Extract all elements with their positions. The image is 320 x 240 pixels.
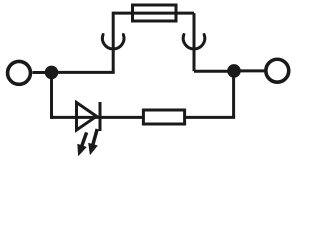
wire right junction to right terminal <box>234 69 265 72</box>
junction dot right <box>227 64 241 78</box>
wire left terminal to left junction <box>32 71 48 74</box>
LED cathode bar <box>99 102 102 131</box>
wire right riser <box>193 13 196 71</box>
fuse holder contact left <box>102 35 124 49</box>
terminal circle left <box>8 61 31 84</box>
wire bottom left run <box>52 116 144 119</box>
LED arrow 1 <box>77 132 87 156</box>
fuse holder contact right <box>183 35 205 49</box>
terminal circle right <box>266 59 289 82</box>
wire left riser <box>112 12 115 73</box>
wire right riser to right junction <box>194 70 234 73</box>
resistor <box>143 110 184 124</box>
wire left junction to left riser <box>52 71 115 74</box>
wire right drop <box>232 71 235 118</box>
junction dot left <box>45 66 59 80</box>
LED arrow 2 <box>88 129 98 155</box>
wire bottom right run <box>185 116 236 119</box>
LED diode triangle <box>77 103 97 131</box>
fuse <box>133 5 177 21</box>
wire left drop <box>50 72 53 119</box>
wire top run <box>113 12 194 15</box>
